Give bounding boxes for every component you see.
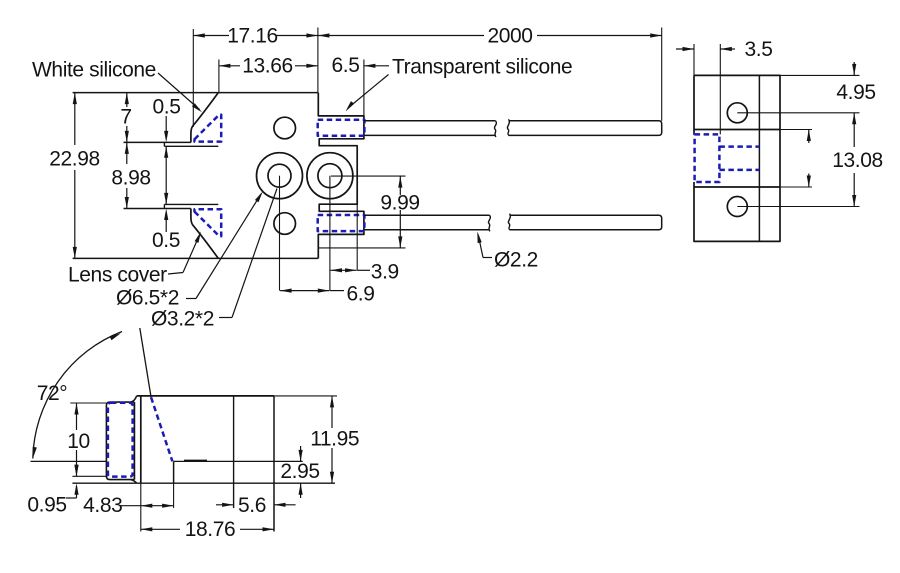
- nose bottom concave curve: [191, 209, 218, 259]
- white silicone top trapezoid (blue dashed): [195, 115, 222, 142]
- dim 2000 extension line right: [661, 28, 663, 121]
- bottom cable with break symbol: [364, 214, 662, 232]
- leader from White silicone to top trapezoid: [158, 73, 203, 114]
- dim extension line at body right edge: [317, 28, 319, 93]
- top mounting hole circle: [274, 117, 296, 139]
- dim 0.95 arrows: [74, 465, 78, 498]
- bottom view bore edge thick segment: [184, 460, 207, 462]
- bottom view slanted lens face (blue dashed): [151, 397, 172, 461]
- bottom mounting hole circle: [274, 213, 296, 235]
- dim 7 line with arrows: [125, 93, 129, 143]
- bottom view nose top flare: [131, 396, 137, 402]
- bottom view body top edge: [137, 395, 274, 397]
- dim 6.5 arrow with tail: [364, 64, 389, 68]
- bottom view step vertical: [173, 461, 175, 483]
- dim 11.95 line with arrows: [330, 396, 334, 483]
- dim text 18.76: [185, 518, 236, 541]
- svg-text:13.66: 13.66: [242, 55, 293, 78]
- unlabeled middle height dim arrows: [807, 130, 811, 188]
- svg-text:4.95: 4.95: [836, 81, 875, 104]
- bottom view nose bottom flare: [131, 480, 137, 484]
- dim text 3.9: [371, 261, 399, 284]
- leader from Transparent silicone to gland: [344, 75, 389, 113]
- dim 9.99 line with arrows: [398, 176, 402, 248]
- dim 4.95 with outside arrows: [852, 62, 856, 147]
- svg-text:0.5: 0.5: [152, 229, 180, 252]
- bottom view step line left extension: [31, 460, 107, 462]
- side view silicone pocket inner dashed lines: [719, 147, 759, 170]
- dim 4.83 line with arrows: [121, 504, 174, 508]
- front view top edge and 22.98 top extension line: [73, 92, 319, 94]
- dim text 17.16: [227, 25, 278, 48]
- bottom view top edge extension right: [274, 395, 337, 397]
- dim text 72deg: [37, 382, 68, 405]
- dim text 6.9: [347, 283, 375, 306]
- extension line at y=248 for dim 9.99: [319, 247, 406, 249]
- dim text 2.95: [280, 460, 319, 483]
- dim text 2000: [487, 25, 532, 48]
- front view body right-side profile with cable gland notches: [318, 93, 364, 259]
- bottom view nose rounded rectangle: [106, 402, 134, 480]
- dim text 0.5 bottom: [152, 229, 180, 252]
- transparent silicone bottom gland (blue dashed): [318, 215, 365, 231]
- bottom view body left edge: [140, 396, 142, 483]
- svg-text:13.08: 13.08: [832, 149, 883, 172]
- dim 10 extension ticks: [70, 403, 107, 476]
- dim text 11.95: [310, 428, 359, 451]
- label White silicone: [32, 59, 156, 82]
- dim text 13.66: [242, 55, 293, 78]
- svg-text:9.99: 9.99: [380, 192, 419, 215]
- dim line 13.66: [219, 64, 318, 68]
- lens bore bottom line: [164, 203, 218, 205]
- dim 6.9 line with arrows: [280, 289, 344, 293]
- svg-text:18.76: 18.76: [185, 518, 236, 541]
- side view internal step edge: [758, 75, 760, 241]
- side view top screw hole: [727, 103, 747, 123]
- white silicone bottom trapezoid (blue dashed): [195, 209, 222, 236]
- lens cover top line: [124, 141, 191, 143]
- dim text 7: [120, 106, 131, 129]
- dim 2.95 arrows outside: [299, 446, 303, 498]
- lens bore top line: [164, 145, 218, 147]
- leader from dia6.5 label to outer circle: [186, 190, 265, 298]
- label diameter 6.5*2: [116, 287, 179, 310]
- dim text 0.95: [27, 494, 66, 517]
- dim text 13.08: [832, 149, 883, 172]
- dim text 22.98: [49, 148, 100, 171]
- bottom view right edge: [273, 396, 275, 532]
- svg-text:Ø3.2*2: Ø3.2*2: [151, 308, 214, 331]
- bottom view step vertical extension down: [173, 483, 175, 508]
- label Lens cover: [68, 264, 167, 287]
- svg-text:22.98: 22.98: [49, 148, 100, 171]
- bottom view step line right part: [174, 460, 303, 462]
- dim 22.98 line with arrows: [73, 93, 77, 259]
- svg-text:4.83: 4.83: [83, 494, 122, 517]
- label diameter 2.2: [494, 249, 538, 272]
- bottom view nose right edge: [133, 402, 135, 480]
- dim text 4.95: [836, 81, 875, 104]
- dim line 17.16: [193, 33, 318, 37]
- svg-text:2.95: 2.95: [280, 460, 319, 483]
- svg-text:72°: 72°: [37, 382, 68, 405]
- dim text 3.5: [745, 38, 773, 61]
- bottom view left edge extension down: [140, 483, 142, 531]
- svg-text:7: 7: [120, 106, 131, 129]
- dim 6.5 extension line right: [363, 60, 365, 116]
- dim 8.98 line with arrows: [125, 142, 129, 208]
- bore step tick bottom: [163, 204, 165, 208]
- extension line from receiver circle centre down: [329, 176, 331, 291]
- dim 17.16 extension line left: [192, 29, 194, 127]
- side view left edge extension up: [693, 44, 695, 75]
- dim 3.9 line with arrows: [331, 268, 371, 272]
- svg-text:White silicone: White silicone: [32, 59, 156, 82]
- dim text 4.83: [83, 494, 122, 517]
- svg-text:5.6: 5.6: [238, 494, 266, 517]
- top cable with break symbol: [364, 119, 662, 137]
- dim 5.6 arrows outside: [216, 503, 296, 507]
- dim 18.76 line with arrows: [141, 527, 274, 531]
- emitter lens circle outer: [257, 153, 303, 199]
- leader from dia2.2 label to cable: [475, 231, 492, 258]
- dim 0.5 bottom arrow: [164, 209, 168, 233]
- bore step tick top: [163, 142, 165, 146]
- bottom view internal edge vertical: [233, 396, 235, 508]
- svg-text:17.16: 17.16: [227, 25, 278, 48]
- 72 degree arc with arrows: [31, 331, 122, 459]
- label Transparent silicone: [392, 56, 572, 79]
- svg-text:3.5: 3.5: [745, 38, 773, 61]
- bottom view white silicone dashed rectangle: [108, 403, 133, 477]
- svg-text:6.5: 6.5: [332, 54, 360, 77]
- svg-text:Ø2.2: Ø2.2: [494, 249, 538, 272]
- dim 3.5 extension line inner: [719, 44, 721, 134]
- svg-text:Ø6.5*2: Ø6.5*2: [116, 287, 179, 310]
- side view bottom screw hole: [727, 197, 747, 217]
- extension line mid bulge edge down: [356, 146, 358, 271]
- nose top concave curve: [191, 93, 218, 143]
- dim 10 line with arrows: [74, 403, 78, 476]
- label diameter 3.2*2: [151, 308, 214, 331]
- dim text 6.5: [332, 54, 360, 77]
- leader from Lens cover to nose: [168, 231, 203, 274]
- dim text 5.6: [238, 494, 266, 517]
- dim 13.08 lower segment: [852, 173, 856, 207]
- bottom view bottom face line with extensions: [72, 482, 335, 484]
- dim text 0.5 top: [153, 96, 181, 119]
- top hole centreline extension: [737, 112, 859, 114]
- svg-text:8.98: 8.98: [111, 167, 150, 190]
- dim 3.5 arrows: [676, 47, 735, 51]
- side view silicone pocket outer (blue dashed): [695, 134, 720, 182]
- svg-text:6.9: 6.9: [347, 283, 375, 306]
- svg-text:10: 10: [67, 430, 90, 453]
- svg-text:0.95: 0.95: [27, 494, 66, 517]
- dim 0.5 top arrow: [164, 116, 168, 142]
- dim line 2000: [318, 33, 662, 37]
- dim text 10: [67, 430, 90, 453]
- centerline from receiver circle for dim 9.99: [331, 175, 406, 177]
- front view bottom edge and 22.98 bottom extension line: [73, 257, 319, 259]
- svg-text:Lens cover: Lens cover: [68, 264, 167, 287]
- dim text 8.98: [111, 167, 150, 190]
- transparent silicone top gland (blue dashed): [318, 120, 365, 136]
- leader from dia3.2 label to inner circle: [219, 189, 277, 318]
- svg-text:11.95: 11.95: [310, 428, 359, 451]
- lens cover bottom line: [124, 208, 191, 210]
- dim 0.95 leader hook: [66, 497, 77, 499]
- svg-text:Transparent silicone: Transparent silicone: [392, 56, 572, 79]
- emitter lens circle inner: [268, 164, 291, 187]
- svg-text:2000: 2000: [487, 25, 532, 48]
- svg-text:3.9: 3.9: [371, 261, 399, 284]
- slant face extension line above body: [140, 328, 151, 397]
- svg-text:0.5: 0.5: [153, 96, 181, 119]
- bottom hole centreline extension: [737, 206, 859, 208]
- ear edge extension lines right: [780, 130, 812, 188]
- top edge extension right: [780, 74, 860, 76]
- dim text 9.99: [380, 192, 419, 215]
- dim 13.66 extension line left: [218, 60, 220, 93]
- receiver lens circle outer: [307, 153, 353, 199]
- extension line from emitter circle centre down: [279, 176, 281, 291]
- receiver lens circle inner: [318, 164, 342, 188]
- unlabeled bore height dim arrows: [164, 146, 168, 204]
- side view outline: [694, 75, 780, 241]
